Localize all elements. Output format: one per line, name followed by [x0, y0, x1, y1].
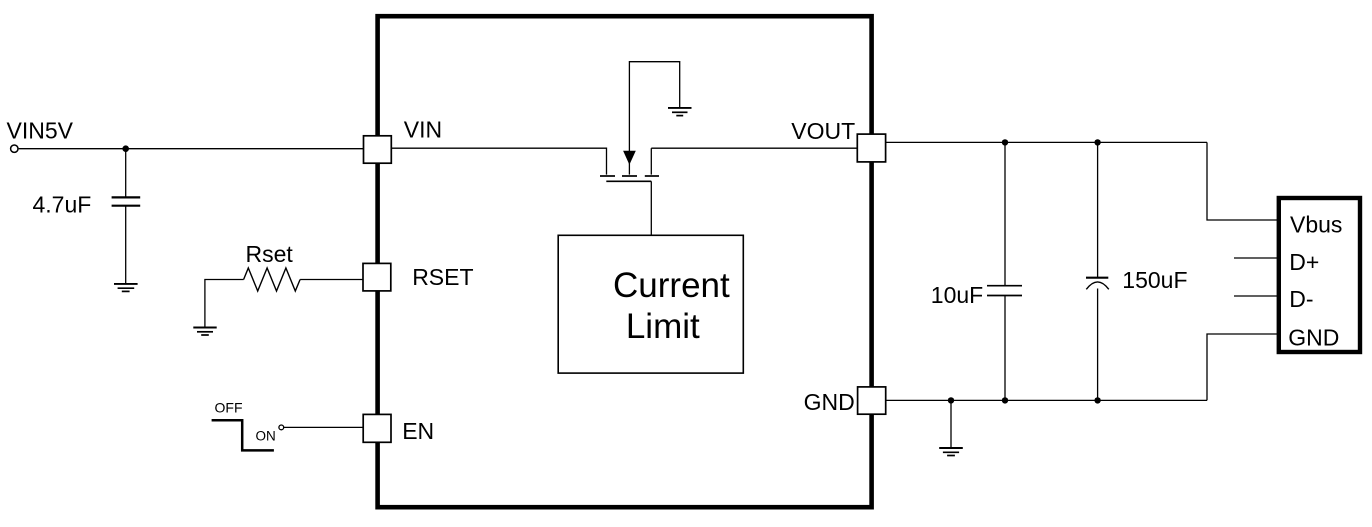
IC U1 body [378, 16, 872, 507]
ground (internal, above MOSFET) [668, 108, 692, 116]
wire (ground rail corner up to connector GND) [1207, 334, 1277, 400]
MOSFET Q1 gate line [606, 180, 651, 182]
wire (C3 bottom lead) [1097, 289, 1099, 401]
svg-text:4.7uF: 4.7uF [33, 191, 92, 217]
wire (Rset left lead + drop to ground) [205, 280, 244, 328]
node junction (C3 tap on VOUT rail) [1094, 139, 1100, 145]
pin RSET pad [363, 263, 391, 291]
wire (VOUT rail corner down to Vbus) [1207, 142, 1277, 220]
wire (EN drive to EN pin) [284, 426, 364, 428]
wire (MOSFET body stem to top rail) [629, 62, 679, 152]
wire (MOSFET drain to VOUT pin) [651, 147, 857, 149]
wire (GND pin to ground rail) [886, 399, 1207, 401]
svg-text:Limit: Limit [626, 307, 700, 346]
svg-text:GND: GND [804, 389, 855, 415]
svg-text:OFF: OFF [215, 400, 243, 416]
node VIN5V terminal wire [19, 148, 377, 150]
ground (below Rset) [193, 328, 216, 336]
pin VOUT pad [857, 134, 885, 162]
terminal circle VIN5V [11, 145, 18, 152]
terminal circle (EN drive) [279, 425, 284, 430]
svg-text:Rset: Rset [246, 241, 294, 267]
capacitor C1 4.7uF plates [112, 196, 141, 198]
wire (D+ stub) [1234, 257, 1277, 259]
wire (internal VIN to MOSFET source) [391, 148, 607, 174]
capacitor C3 150uF curved plate [1086, 282, 1109, 289]
svg-text:VOUT: VOUT [791, 118, 855, 144]
ground (output side) [939, 448, 963, 456]
Current Limit block [558, 235, 743, 373]
pin EN pad [363, 414, 391, 442]
pin GND pad [858, 387, 886, 414]
capacitor C3 150uF top plate [1086, 277, 1108, 279]
svg-text:Current: Current [613, 266, 730, 305]
node junction (chassis ground tap) [948, 397, 954, 403]
svg-text:ON: ON [256, 428, 276, 443]
svg-text:VIN: VIN [404, 116, 442, 142]
wire (D- stub) [1234, 295, 1277, 297]
wire (C1 bottom to ground) [125, 206, 127, 284]
wire (gate to Current Limit block) [650, 181, 652, 235]
svg-text:GND: GND [1288, 324, 1339, 350]
svg-text:Vbus: Vbus [1290, 212, 1342, 238]
wire (C2 top lead) [1004, 142, 1006, 285]
wire (VOUT pin to output rail) [886, 141, 1207, 143]
node junction (C3 bottom tap) [1094, 397, 1100, 403]
wire (arrow stem to body contact) [628, 163, 630, 175]
svg-text:EN: EN [402, 418, 434, 444]
svg-text:D-: D- [1289, 286, 1313, 312]
svg-text:RSET: RSET [412, 264, 473, 290]
svg-text:D+: D+ [1289, 249, 1319, 275]
MOSFET Q1 body arrow (points down) [623, 151, 636, 165]
pin VIN pad [364, 136, 392, 163]
wire (Rset right lead to RSET pin) [300, 279, 364, 281]
svg-text:150uF: 150uF [1122, 267, 1187, 293]
svg-text:VIN5V: VIN5V [7, 117, 74, 143]
node junction (C2 tap on VOUT rail) [1002, 139, 1008, 145]
wire (ground rail stem) [950, 400, 952, 447]
MOSFET Q1 body contact bar [622, 175, 637, 177]
ground (below C1) [114, 284, 138, 292]
switch waveform OFF level [212, 420, 274, 450]
capacitor C2 10uF plates [987, 285, 1022, 287]
wire (C2 bottom lead) [1004, 296, 1006, 401]
wire (C3 top lead) [1097, 142, 1099, 277]
resistor R1 Rset zigzag [244, 268, 301, 291]
node junction (C2 bottom tap) [1002, 397, 1008, 403]
wire (junction to C1 top) [125, 149, 127, 198]
svg-text:10uF: 10uF [931, 282, 983, 308]
node junction (C1 tap) [122, 145, 129, 152]
connector J1 (USB receptacle) [1279, 198, 1360, 352]
MOSFET Q1 source contact bar [600, 175, 615, 177]
MOSFET Q1 drain contact bar [645, 175, 659, 177]
wire (MOSFET drain stub) [650, 148, 652, 174]
